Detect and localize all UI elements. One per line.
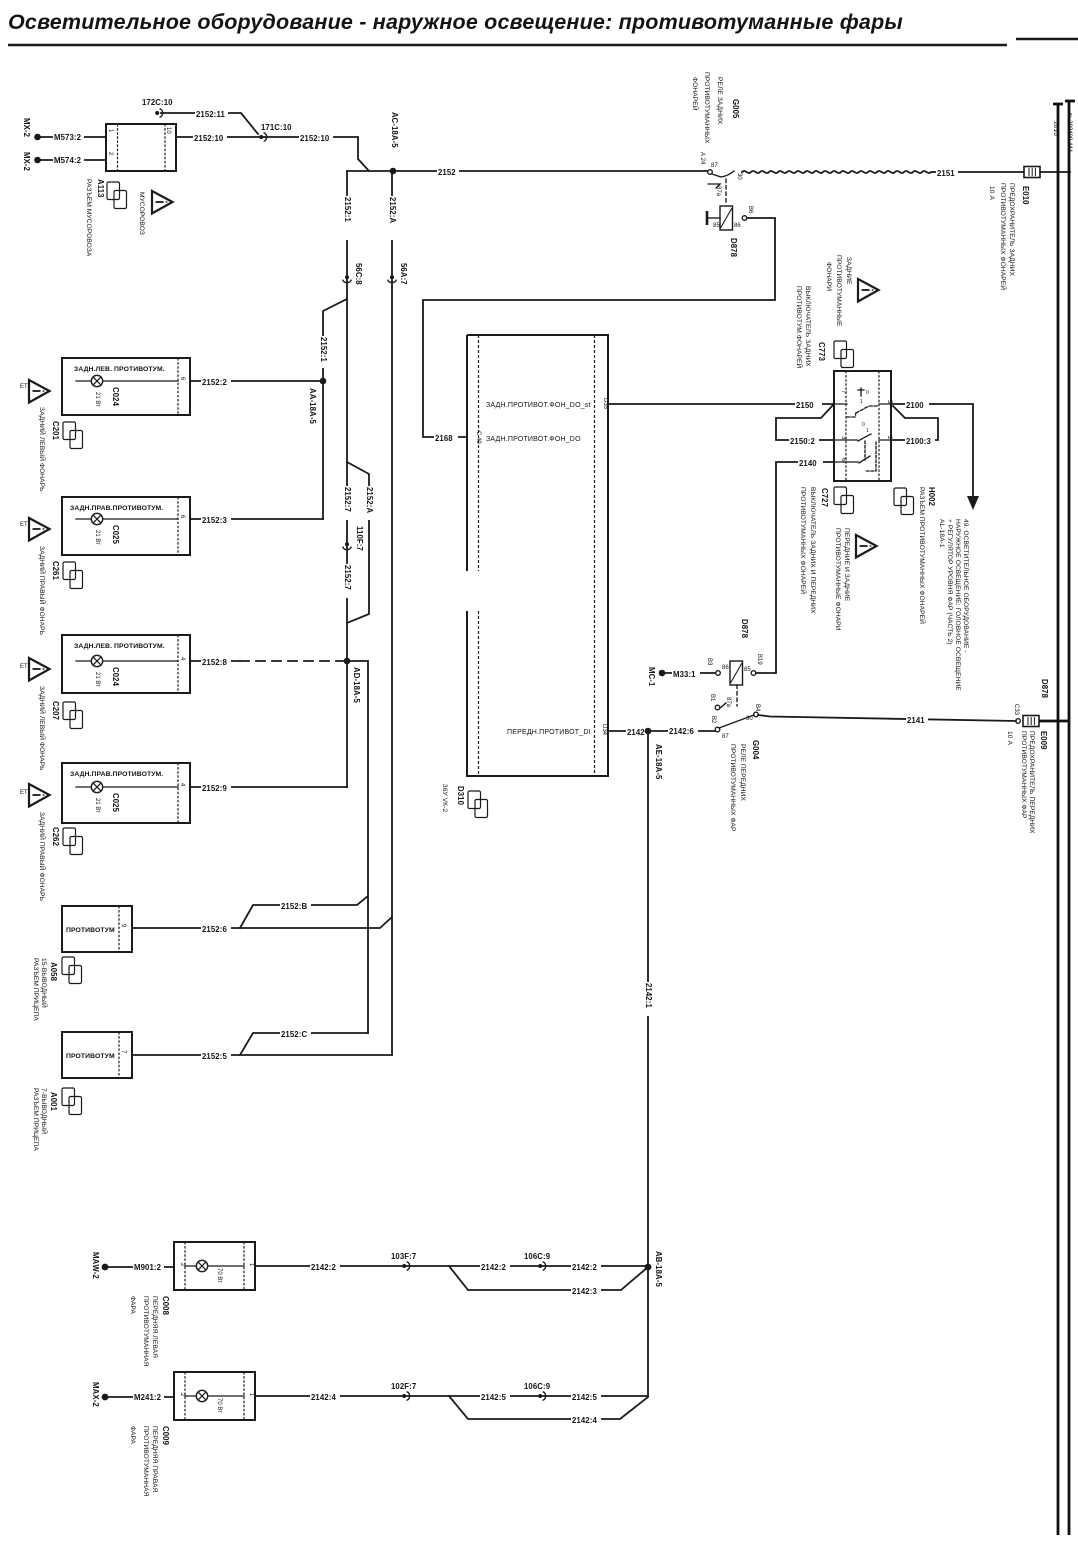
triangle (rear left lamp 2) bbox=[20, 658, 50, 681]
note 49 (to AL-18A-1) bbox=[938, 519, 969, 691]
svg-text:15-ВЫВОДНЫЙ: 15-ВЫВОДНЫЙ bbox=[40, 958, 49, 1008]
svg-text:106С:9: 106С:9 bbox=[524, 1382, 551, 1391]
svg-text:ПРОТИВОТУМАННЫХ ФАР: ПРОТИВОТУМАННЫХ ФАР bbox=[729, 744, 736, 832]
svg-text:171С:10: 171С:10 bbox=[261, 123, 292, 132]
svg-text:А001: А001 bbox=[49, 1092, 58, 1112]
svg-text:2152:1: 2152:1 bbox=[343, 197, 352, 222]
svg-text:М241:2: М241:2 bbox=[134, 1393, 162, 1402]
svg-text:МХ-2: МХ-2 bbox=[22, 152, 31, 172]
svg-text:ПРОТИВОТУМАННЫЕ ФОНАРИ: ПРОТИВОТУМАННЫЕ ФОНАРИ bbox=[834, 528, 841, 631]
svg-text:ПЕРЕДН.ПРОТИВОТ_DI: ПЕРЕДН.ПРОТИВОТ_DI bbox=[507, 729, 591, 736]
svg-text:ПЕРЕДНЯЯ ЛЕВАЯ: ПЕРЕДНЯЯ ЛЕВАЯ bbox=[151, 1296, 158, 1358]
svg-text:А 24: А 24 bbox=[699, 152, 705, 165]
trailer socket A001 bbox=[62, 1032, 132, 1078]
svg-text:ЕТ: ЕТ bbox=[20, 522, 28, 528]
lamp unit C025 (rear right 2) bbox=[62, 763, 190, 823]
svg-text:ЕТ: ЕТ bbox=[20, 790, 28, 796]
svg-text:М573:2: М573:2 bbox=[54, 133, 82, 142]
svg-text:С261: С261 bbox=[51, 561, 60, 581]
svg-text:+ РЕГУЛЯТОР УРОВНЯ ФАР (ЧАСТЬ: + РЕГУЛЯТОР УРОВНЯ ФАР (ЧАСТЬ 2) bbox=[946, 519, 953, 645]
svg-text:2152:3: 2152:3 bbox=[202, 516, 227, 525]
switch internals bbox=[834, 404, 891, 462]
svg-text:2152:5: 2152:5 bbox=[202, 1052, 227, 1061]
connector C261 bbox=[51, 561, 83, 589]
wire 2150 (D35 to switch) bbox=[608, 399, 834, 410]
svg-text:36У VК-2: 36У VК-2 bbox=[441, 784, 448, 812]
wire 2100 to note arrow bbox=[891, 399, 979, 510]
wire M33:1 bbox=[665, 668, 715, 679]
svg-text:2141: 2141 bbox=[907, 716, 925, 725]
svg-text:РАЗЪЕМ ПРИЦЕПА: РАЗЪЕМ ПРИЦЕПА bbox=[32, 1088, 39, 1151]
svg-text:2152:8: 2152:8 bbox=[202, 658, 227, 667]
svg-text:ПРОТИВОТУМАННЫХ: ПРОТИВОТУМАННЫХ bbox=[703, 72, 710, 144]
svg-text:ЗАДН.ПРАВ.ПРОТИВОТУМ.: ЗАДН.ПРАВ.ПРОТИВОТУМ. bbox=[70, 505, 163, 512]
relay G005 contact bbox=[708, 163, 742, 197]
svg-text:ЗАДНИЙ ПРАВЫЙ ФОНАРЬ: ЗАДНИЙ ПРАВЫЙ ФОНАРЬ bbox=[38, 812, 47, 901]
triangle (rear right lamp) bbox=[20, 518, 50, 541]
svg-text:НАРУЖНОЕ ОСВЕЩЕНИЕ: ГОЛОВНОЕ О: НАРУЖНОЕ ОСВЕЩЕНИЕ: ГОЛОВНОЕ ОСВЕЩЕНИЕ bbox=[954, 519, 961, 691]
wire 2152:10 + connector 171C:10 bbox=[176, 123, 369, 171]
svg-text:ВЫКЛЮЧАТЕЛЬ ЗАДНИХ: ВЫКЛЮЧАТЕЛЬ ЗАДНИХ bbox=[804, 286, 811, 367]
wire jog to AA rail bbox=[323, 299, 347, 519]
svg-text:В3: В3 bbox=[706, 658, 712, 666]
svg-text:87: 87 bbox=[722, 734, 729, 740]
connector A113 symbol bbox=[107, 182, 127, 209]
lamp unit C025 (rear right) bbox=[62, 497, 190, 555]
svg-text:10 А: 10 А bbox=[1006, 731, 1013, 745]
svg-text:110F:7: 110F:7 bbox=[355, 526, 364, 551]
svg-text:D878: D878 bbox=[729, 238, 738, 258]
svg-text:2142:2: 2142:2 bbox=[572, 1263, 597, 1272]
svg-text:ПЕРЕДНИЕ И ЗАДНИЕ: ПЕРЕДНИЕ И ЗАДНИЕ bbox=[843, 528, 850, 602]
svg-text:М33:1: М33:1 bbox=[673, 670, 696, 679]
wire 2152:A vertical (56A:7 rail) bbox=[387, 171, 397, 1055]
svg-text:ФАРА: ФАРА bbox=[129, 1296, 136, 1315]
node MAW-2 terminal bbox=[91, 1252, 108, 1279]
svg-text:С773: С773 bbox=[817, 342, 826, 362]
svg-text:С207: С207 bbox=[51, 701, 60, 720]
svg-text:2152:6: 2152:6 bbox=[202, 925, 227, 934]
svg-text:2142: 2142 bbox=[627, 728, 645, 737]
svg-text:М574:2: М574:2 bbox=[54, 156, 82, 165]
wire 2142:2 run bbox=[255, 1252, 648, 1272]
svg-text:D878: D878 bbox=[1040, 679, 1049, 699]
svg-text:7-ВЫВОДНЫЙ: 7-ВЫВОДНЫЙ bbox=[40, 1088, 49, 1134]
svg-text:103F:7: 103F:7 bbox=[391, 1252, 416, 1261]
svg-text:2152:9: 2152:9 bbox=[202, 784, 227, 793]
svg-text:172С:10: 172С:10 bbox=[142, 98, 173, 107]
fuse E009 labels bbox=[1006, 731, 1048, 834]
svg-text:87а: 87а bbox=[715, 186, 721, 197]
labels C008 bbox=[129, 1296, 170, 1367]
svg-text:АВ-18А-5: АВ-18А-5 bbox=[654, 1251, 663, 1287]
svg-text:ЗАДНИЙ ПРАВЫЙ ФОНАРЬ: ЗАДНИЙ ПРАВЫЙ ФОНАРЬ bbox=[38, 546, 47, 635]
svg-text:Н002: Н002 bbox=[927, 487, 936, 507]
svg-text:56С:8: 56С:8 bbox=[354, 263, 363, 285]
connector 56C:8 bbox=[343, 263, 363, 285]
svg-text:2142:6: 2142:6 bbox=[669, 727, 694, 736]
svg-text:ЗАДН.ПРОТИВОТ.ФОН_DO: ЗАДН.ПРОТИВОТ.ФОН_DO bbox=[486, 436, 581, 443]
svg-text:ПРОТИВОТУМ.ФОНАРЕЙ: ПРОТИВОТУМ.ФОНАРЕЙ bbox=[795, 286, 804, 369]
relay D878 coil (rear) bbox=[713, 179, 753, 258]
wire 2142:3 bypass bbox=[449, 1266, 648, 1296]
svg-text:РАЗЪЕМ ПРИЦЕПА: РАЗЪЕМ ПРИЦЕПА bbox=[32, 958, 39, 1021]
svg-text:ПЕРЕДНЯЯ ПРАВАЯ: ПЕРЕДНЯЯ ПРАВАЯ bbox=[151, 1426, 158, 1493]
svg-text:ПРОТИВОТУМАННЫХ ФАР: ПРОТИВОТУМАННЫХ ФАР bbox=[1020, 731, 1027, 819]
svg-text:2140: 2140 bbox=[799, 459, 817, 468]
svg-text:2152:7: 2152:7 bbox=[343, 565, 352, 590]
labels C009 bbox=[129, 1426, 170, 1497]
svg-text:ПРОТИВОТУМАННАЯ: ПРОТИВОТУМАННАЯ bbox=[142, 1426, 149, 1497]
relay G004 labels bbox=[729, 740, 760, 832]
wire M573:2 bbox=[41, 131, 106, 142]
node AB-18A-5 junction bbox=[645, 1251, 663, 1287]
svg-text:С201: С201 bbox=[51, 421, 60, 441]
svg-text:Е010: Е010 bbox=[1021, 186, 1030, 205]
wire 2152:5 bbox=[132, 1050, 392, 1061]
bus line 2 bbox=[1065, 101, 1075, 1535]
connector C773 bbox=[795, 286, 854, 369]
triangle (rear right lamp 2) bbox=[20, 784, 50, 807]
svg-text:С 40: С 40 bbox=[475, 431, 481, 444]
svg-text:2168: 2168 bbox=[435, 434, 453, 443]
svg-text:ПРОТИВОТУМ: ПРОТИВОТУМ bbox=[66, 1053, 115, 1060]
svg-text:2152:10: 2152:10 bbox=[194, 134, 224, 143]
svg-text:70 Вт: 70 Вт bbox=[216, 1398, 222, 1413]
node MAX-2 terminal bbox=[91, 1382, 108, 1407]
svg-text:ЗАДН.ЛЕВ. ПРОТИВОТУМ.: ЗАДН.ЛЕВ. ПРОТИВОТУМ. bbox=[74, 643, 165, 650]
node MX-2 (M574) bbox=[22, 152, 41, 172]
svg-text:87: 87 bbox=[711, 163, 718, 169]
svg-text:С262: С262 bbox=[51, 827, 60, 847]
svg-text:10: 10 bbox=[165, 127, 171, 134]
svg-text:ПРЕДОХРАНИТЕЛЬ ЗАДНИХ: ПРЕДОХРАНИТЕЛЬ ЗАДНИХ bbox=[1008, 183, 1015, 277]
svg-text:70 Вт: 70 Вт bbox=[216, 1268, 222, 1283]
svg-text:D310: D310 bbox=[456, 786, 465, 806]
svg-text:В19: В19 bbox=[756, 654, 762, 665]
wire 2152:C branch bbox=[240, 1028, 368, 1055]
lamp unit C009 (front right fog lamp) bbox=[174, 1372, 255, 1420]
wire 2152:3 bbox=[190, 514, 323, 525]
svg-text:21 Вт: 21 Вт bbox=[94, 672, 100, 687]
connector A058 bbox=[32, 957, 82, 1021]
svg-text:ФОНАРИ: ФОНАРИ bbox=[825, 262, 832, 291]
wire M574:2 bbox=[41, 154, 106, 165]
svg-text:86: 86 bbox=[734, 223, 741, 229]
svg-text:49. ОСВЕТИТЕЛЬНОЕ ОБОРУДОВАНИЕ: 49. ОСВЕТИТЕЛЬНОЕ ОБОРУДОВАНИЕ - bbox=[962, 519, 969, 653]
wire 2152:1 branch (left vertical) bbox=[342, 171, 352, 462]
svg-text:С727: С727 bbox=[820, 488, 829, 507]
svg-text:21 Вт: 21 Вт bbox=[94, 392, 100, 407]
svg-text:2142:2: 2142:2 bbox=[311, 1263, 336, 1272]
wire 2100:3 loop bbox=[891, 406, 938, 446]
svg-text:D878: D878 bbox=[740, 619, 749, 639]
svg-text:ПРОТИВОТУМ: ПРОТИВОТУМ bbox=[66, 927, 115, 934]
svg-text:2142:1: 2142:1 bbox=[644, 983, 653, 1008]
wire down to 2152:9 bbox=[346, 661, 348, 787]
fuse E009 bbox=[1023, 679, 1070, 727]
node MX-2 (M573) bbox=[22, 118, 41, 140]
svg-text:Осветительное оборудование - н: Осветительное оборудование - наружное ос… bbox=[8, 10, 903, 34]
connector D310 bbox=[441, 784, 488, 818]
svg-text:2142:2: 2142:2 bbox=[481, 1263, 506, 1272]
svg-text:2152:А: 2152:А bbox=[365, 487, 374, 513]
lamp unit C008 (front left fog lamp) bbox=[174, 1242, 255, 1290]
wire 2142 (D34 out) bbox=[608, 726, 648, 737]
node AD-18A-5 junction bbox=[344, 658, 361, 704]
wire 2152:2 bbox=[190, 376, 323, 387]
svg-text:ЕТ: ЕТ bbox=[20, 384, 28, 390]
svg-text:В6: В6 bbox=[747, 206, 753, 214]
svg-text:102F:7: 102F:7 bbox=[391, 1382, 416, 1391]
svg-text:10 А: 10 А bbox=[988, 186, 995, 200]
svg-text:2142:5: 2142:5 bbox=[572, 1393, 597, 1402]
svg-text:С33: С33 bbox=[1013, 704, 1019, 716]
svg-text:2152:А: 2152:А bbox=[388, 197, 397, 223]
svg-text:ль 293409 444: ль 293409 444 bbox=[1066, 112, 1072, 153]
svg-text:МХ-2: МХ-2 bbox=[22, 118, 31, 138]
svg-text:2151: 2151 bbox=[937, 169, 955, 178]
svg-text:0: 0 bbox=[866, 390, 869, 396]
svg-text:21 Вт: 21 Вт bbox=[94, 798, 100, 813]
node AA-18A-5 junction bbox=[308, 378, 326, 425]
front+rear fog triangle cluster bbox=[834, 528, 877, 631]
svg-text:ЗАДНИЙ ЛЕВЫЙ ФОНАРЬ: ЗАДНИЙ ЛЕВЫЙ ФОНАРЬ bbox=[38, 686, 47, 771]
svg-text:С024: С024 bbox=[111, 387, 120, 407]
svg-text:G004: G004 bbox=[751, 740, 760, 760]
svg-text:21 Вт: 21 Вт bbox=[94, 530, 100, 545]
svg-text:Е009: Е009 bbox=[1039, 731, 1048, 750]
svg-text:А058: А058 bbox=[49, 962, 58, 982]
pin circle coil right bbox=[742, 216, 747, 221]
svg-text:30: 30 bbox=[746, 716, 753, 722]
svg-text:2152:7: 2152:7 bbox=[343, 487, 352, 512]
svg-text:106С:9: 106С:9 bbox=[524, 1252, 551, 1261]
svg-text:ЗАДНИЙ ЛЕВЫЙ ФОНАРЬ: ЗАДНИЙ ЛЕВЫЙ ФОНАРЬ bbox=[38, 407, 47, 492]
wire 2152:9 bbox=[190, 782, 347, 793]
wire 2152:6 bbox=[132, 917, 392, 934]
wire AE-18A-5 vertical (2142:1) bbox=[643, 731, 653, 1396]
wire 2168 (C40 feed loop from relay D878) bbox=[423, 218, 775, 443]
svg-text:МАХ-2: МАХ-2 bbox=[91, 1382, 100, 1407]
svg-text:В4: В4 bbox=[754, 704, 760, 712]
connector C727 label bbox=[799, 487, 854, 614]
svg-text:2152:С: 2152:С bbox=[281, 1030, 307, 1039]
svg-text:ЕТ: ЕТ bbox=[20, 664, 28, 670]
svg-text:1010: 1010 bbox=[1052, 121, 1059, 136]
svg-text:В1: В1 bbox=[709, 694, 715, 702]
node AE-18A-5 junction bbox=[645, 728, 663, 780]
svg-text:ПРОТИВОТУМАННЫХ ФОНАРЕЙ: ПРОТИВОТУМАННЫХ ФОНАРЕЙ bbox=[999, 183, 1008, 290]
svg-text:ПРОТИВОТУМАННЫХ ФОНАРЕЙ: ПРОТИВОТУМАННЫХ ФОНАРЕЙ bbox=[799, 487, 808, 594]
connector C201 bbox=[51, 421, 83, 449]
svg-text:ПРОТИВОТУМАННАЯ: ПРОТИВОТУМАННАЯ bbox=[142, 1296, 149, 1367]
wire 2142:4 bypass bbox=[449, 1396, 648, 1425]
node AC-18A-5 junction bbox=[390, 112, 399, 174]
svg-text:АА-18А-5: АА-18А-5 bbox=[308, 388, 317, 424]
svg-text:2142:3: 2142:3 bbox=[572, 1287, 597, 1296]
svg-text:ПРОТИВОТУМАННЫЕ: ПРОТИВОТУМАННЫЕ bbox=[835, 255, 842, 327]
wire 110F:7 run with bypass loop bbox=[342, 462, 374, 661]
svg-text:2152:10: 2152:10 bbox=[300, 134, 330, 143]
svg-text:ЗАДН.ПРОТИВОТ.ФОН_DO_st: ЗАДН.ПРОТИВОТ.ФОН_DO_st bbox=[486, 402, 591, 409]
svg-text:МАW-2: МАW-2 bbox=[91, 1252, 100, 1279]
wire to 2152:C rail bbox=[347, 661, 368, 1033]
node MC-1 terminal bbox=[647, 667, 665, 687]
svg-text:МС-1: МС-1 bbox=[647, 667, 656, 687]
connector H002 bbox=[894, 487, 936, 624]
connector A001 bbox=[32, 1088, 82, 1151]
ground (relay G005 coil) bbox=[707, 211, 720, 225]
svg-text:D34: D34 bbox=[601, 724, 607, 736]
svg-text:30: 30 bbox=[736, 173, 742, 180]
switch box C727 bbox=[834, 371, 892, 481]
svg-text:А113: А113 bbox=[96, 179, 105, 198]
bus line 1 bbox=[1052, 104, 1063, 1535]
wire 2151 (wavy) to fuse E010 bbox=[742, 166, 1024, 178]
wire 2150:2 jumper bbox=[776, 404, 834, 446]
svg-text:С008: С008 bbox=[161, 1296, 170, 1316]
wire 2142:4 / 2142:5 run bbox=[255, 1382, 648, 1402]
svg-text:ВЫКЛЮЧАТЕЛЬ ЗАДНИХ И ПЕРЕДНИХ: ВЫКЛЮЧАТЕЛЬ ЗАДНИХ И ПЕРЕДНИХ bbox=[809, 487, 816, 614]
svg-text:2152:11: 2152:11 bbox=[196, 110, 225, 119]
svg-text:2152:2: 2152:2 bbox=[202, 378, 227, 387]
wire 2152 horizontal bbox=[347, 166, 707, 177]
svg-text:РЕЛЕ ПЕРЕДНИХ: РЕЛЕ ПЕРЕДНИХ bbox=[739, 744, 746, 801]
svg-text:В2: В2 bbox=[710, 716, 716, 724]
wire 2140 bbox=[776, 457, 834, 673]
svg-text:2152: 2152 bbox=[438, 168, 456, 177]
A113 labels bbox=[85, 179, 105, 257]
relay G004 coil (D878) bbox=[706, 619, 775, 685]
wire 2142:6 bbox=[648, 725, 715, 736]
svg-text:С024: С024 bbox=[111, 667, 120, 687]
svg-text:М901:2: М901:2 bbox=[134, 1263, 162, 1272]
connector C207 bbox=[51, 701, 83, 729]
fuse E010 bbox=[1024, 167, 1070, 178]
svg-text:ФОНАРЕЙ: ФОНАРЕЙ bbox=[691, 77, 700, 111]
svg-text:G005: G005 bbox=[731, 99, 740, 119]
fuse E010 labels bbox=[988, 183, 1030, 290]
relay G005 labels bbox=[691, 72, 740, 165]
svg-text:85: 85 bbox=[713, 223, 720, 229]
svg-text:1: 1 bbox=[860, 399, 863, 405]
trailer socket A058 bbox=[62, 906, 132, 952]
svg-text:ФАРА: ФАРА bbox=[129, 1426, 136, 1445]
svg-text:ПРЕДОХРАНИТЕЛЬ ПЕРЕДНИХ: ПРЕДОХРАНИТЕЛЬ ПЕРЕДНИХ bbox=[1028, 731, 1035, 834]
svg-text:85: 85 bbox=[744, 667, 751, 673]
svg-text:2100:3: 2100:3 bbox=[906, 437, 931, 446]
wire 2152:B branch bbox=[240, 896, 368, 928]
ECU box D310 bbox=[467, 335, 608, 776]
svg-text:С025: С025 bbox=[111, 525, 120, 545]
svg-text:ЗАДН.ПРАВ.ПРОТИВОТУМ.: ЗАДН.ПРАВ.ПРОТИВОТУМ. bbox=[70, 771, 163, 778]
connector C262 bbox=[51, 827, 83, 855]
svg-text:2142:4: 2142:4 bbox=[311, 1393, 336, 1402]
svg-text:AL-18A-1: AL-18A-1 bbox=[938, 519, 945, 548]
svg-text:2142:4: 2142:4 bbox=[572, 1416, 597, 1425]
svg-text:РЕЛЕ ЗАДНИХ: РЕЛЕ ЗАДНИХ bbox=[716, 77, 723, 125]
svg-text:ЗАДНИЕ: ЗАДНИЕ bbox=[845, 257, 852, 285]
warning triangle (мусоровоз) bbox=[152, 191, 173, 214]
page corner rule bbox=[1016, 38, 1078, 40]
svg-text:АЕ-18А-5: АЕ-18А-5 bbox=[654, 744, 663, 780]
svg-text:С009: С009 bbox=[161, 1426, 170, 1446]
svg-text:0: 0 bbox=[862, 422, 865, 428]
svg-text:2100: 2100 bbox=[906, 401, 924, 410]
svg-text:1: 1 bbox=[866, 428, 869, 434]
svg-text:2152:1: 2152:1 bbox=[319, 337, 328, 362]
wire label 2152:1 on AA rail bbox=[318, 336, 328, 368]
relay G004 contact bbox=[709, 685, 760, 740]
svg-text:АD-18А-5: АD-18А-5 bbox=[352, 667, 361, 703]
wire 2152:11 + connector 172C:10 bbox=[142, 98, 258, 134]
connector block A113 bbox=[106, 124, 176, 171]
triangle (rear left lamp) bbox=[20, 380, 50, 403]
wire M241:2 bbox=[109, 1391, 174, 1402]
svg-text:МУСОРОВОЗ: МУСОРОВОЗ bbox=[138, 192, 145, 235]
svg-text:2142:5: 2142:5 bbox=[481, 1393, 506, 1402]
svg-text:2152:В: 2152:В bbox=[281, 902, 307, 911]
svg-text:2150: 2150 bbox=[796, 401, 814, 410]
rear fog warning triangle cluster bbox=[825, 255, 879, 327]
wire M901:2 bbox=[109, 1261, 174, 1272]
wire 2141 to fuse E009 bbox=[758, 704, 1020, 725]
svg-text:АС-18А-5: АС-18А-5 bbox=[390, 112, 399, 148]
lamp unit C024 (rear left 2) bbox=[62, 635, 190, 693]
svg-text:РАЗЪЕМ ПРОТИВОТУМАННЫХ ФОНАРЕЙ: РАЗЪЕМ ПРОТИВОТУМАННЫХ ФОНАРЕЙ bbox=[918, 487, 927, 624]
connector 56A:7 bbox=[388, 263, 408, 285]
svg-text:56А:7: 56А:7 bbox=[399, 263, 408, 285]
svg-text:86: 86 bbox=[722, 665, 729, 671]
svg-text:2150:2: 2150:2 bbox=[790, 437, 815, 446]
svg-text:ЗАДН.ЛЕВ. ПРОТИВОТУМ.: ЗАДН.ЛЕВ. ПРОТИВОТУМ. bbox=[74, 366, 165, 373]
svg-text:С025: С025 bbox=[111, 793, 120, 813]
lamp unit C024 (rear left) bbox=[62, 358, 190, 415]
svg-text:РАЗЪЕМ МУСОРОВОЗА: РАЗЪЕМ МУСОРОВОЗА bbox=[85, 179, 92, 257]
wire 2152:8 (dashed) bbox=[190, 656, 343, 667]
title rule bbox=[8, 44, 1007, 47]
